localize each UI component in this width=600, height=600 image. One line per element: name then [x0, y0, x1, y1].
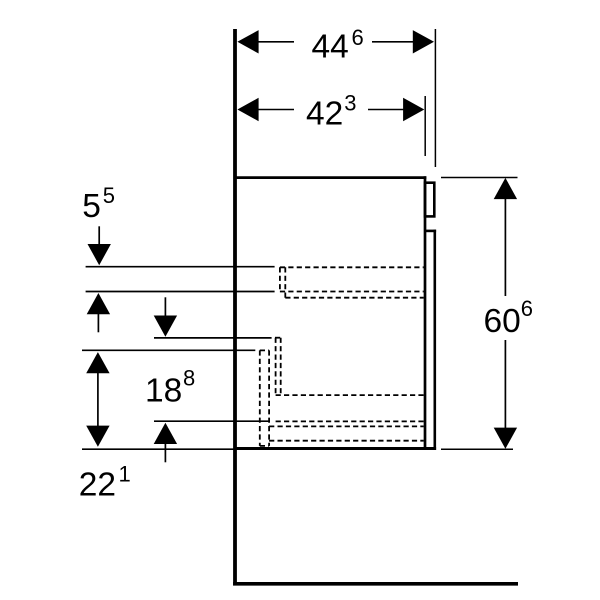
cabinet back rail top connector — [425, 230, 436, 233]
drawer2 hidden inner front cap — [275, 337, 281, 339]
cabinet bottom edge — [237, 447, 437, 450]
dim 44.6 shaft left — [257, 41, 294, 43]
leader line drawer1 bottom — [86, 291, 275, 293]
cabinet back outer edge — [433, 230, 436, 450]
drawer2 hidden rail line — [276, 420, 424, 422]
svg-text:1: 1 — [119, 462, 131, 487]
drawer1 hidden front outer — [279, 267, 281, 291]
drawer1 hidden bottom edge — [280, 291, 424, 293]
dim 22.1 upper arrow — [86, 352, 109, 373]
drawer2 hidden inner front left — [275, 338, 277, 395]
extension line dim 42.3 right — [424, 96, 426, 156]
dim 5.5 lower stem — [97, 313, 99, 332]
wall — [233, 29, 237, 586]
dim 5.5 upper arrow — [88, 244, 111, 265]
dim 60.6 arrow bottom — [494, 428, 517, 449]
dim 44.6 shaft right — [372, 41, 414, 43]
svg-text:6: 6 — [521, 296, 533, 321]
dim 18.8 lower stem — [164, 443, 166, 462]
dim 5.5 upper stem — [98, 226, 100, 245]
dim 42.3 arrow left — [237, 98, 258, 121]
dim 18.8 upper arrow — [154, 316, 177, 337]
drawer2 hidden bottom edge — [269, 425, 424, 427]
leader line drawer2 inner top — [154, 337, 272, 339]
dim 42.3 arrow right — [403, 98, 424, 121]
drawer1 hidden top edge — [280, 266, 424, 268]
leader line drawer2 rail — [154, 420, 270, 422]
extension line cabinet bottom left — [82, 448, 236, 450]
dim 22.1 stem — [97, 372, 99, 426]
dim 42.3 shaft left — [257, 109, 294, 111]
drawer2 hidden interior bottom — [276, 394, 424, 396]
drawer2 hidden front bottom cap — [260, 445, 269, 447]
leader line drawer2 front top — [82, 349, 255, 351]
drawer2 hidden base edge — [269, 440, 424, 442]
svg-text:42: 42 — [306, 95, 343, 132]
svg-text:5: 5 — [82, 188, 101, 225]
svg-text:5: 5 — [103, 183, 115, 208]
svg-text:6: 6 — [352, 25, 364, 50]
leader line drawer1 top — [86, 266, 275, 268]
dim 60.6 shaft upper — [504, 197, 506, 296]
svg-text:18: 18 — [145, 373, 182, 410]
drawer2 hidden front outer right — [268, 350, 270, 446]
drawer1 hidden front inner — [284, 267, 286, 297]
dim 42.3 shaft right — [368, 109, 404, 111]
cabinet right edge — [424, 176, 427, 450]
dim 60.6 arrow top — [494, 178, 517, 199]
dim 22.1 lower arrow — [86, 426, 109, 447]
extension line dim 44.6 right — [434, 29, 436, 167]
dim 60.6 shaft lower — [504, 340, 506, 430]
dim 18.8 upper stem — [164, 297, 166, 316]
floor — [233, 582, 518, 586]
extension line dim 60.6 top — [441, 177, 518, 179]
svg-text:3: 3 — [344, 91, 356, 116]
wall mounting bracket — [425, 183, 434, 217]
svg-text:22: 22 — [79, 467, 116, 504]
svg-text:44: 44 — [312, 29, 349, 66]
drawer2 hidden inner front right — [280, 338, 282, 395]
drawer1 hidden lower edge — [285, 297, 423, 299]
svg-text:60: 60 — [484, 303, 521, 340]
extension line dim 60.6 bottom — [441, 448, 513, 450]
dim 18.8 lower arrow — [154, 423, 177, 444]
dim 44.6 arrow right — [413, 30, 434, 53]
drawer2 hidden front outer left — [259, 350, 261, 446]
dim 5.5 lower arrow — [87, 293, 110, 314]
svg-text:8: 8 — [183, 366, 195, 391]
dim 44.6 arrow left — [237, 30, 258, 53]
drawer2 hidden front top cap — [260, 349, 269, 351]
cabinet top edge — [237, 176, 427, 179]
